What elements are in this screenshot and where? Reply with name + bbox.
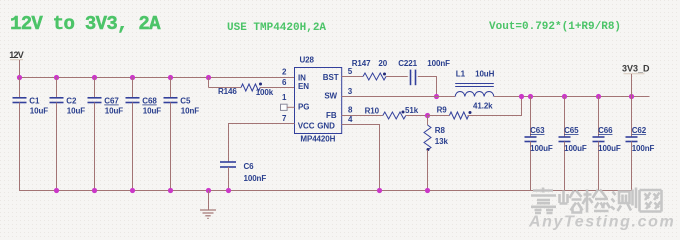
svg-text:2: 2: [282, 68, 287, 77]
node R9 riser junction: [519, 94, 524, 99]
svg-text:C68: C68: [142, 97, 157, 106]
node out rail 3V3_D junction: [629, 94, 634, 99]
capacitor C6: [220, 162, 266, 191]
wire BST pin to R147: [342, 76, 363, 78]
wire EN branch vertical: [208, 78, 210, 88]
svg-text:10uF: 10uF: [67, 106, 85, 115]
capacitor C65: [559, 97, 587, 191]
svg-text:BST: BST: [323, 73, 339, 82]
node C68 gnd junction: [130, 188, 135, 193]
wire top input rail: [20, 77, 295, 79]
node C5 top junction: [168, 75, 173, 80]
svg-text:41.2k: 41.2k: [473, 101, 493, 110]
ground symbol: [200, 191, 216, 219]
op-amp U28 MP4420H body: [295, 56, 342, 144]
svg-text:MP4420H: MP4420H: [300, 134, 335, 143]
svg-text:U28: U28: [300, 56, 315, 65]
wire FB node to R9: [428, 115, 450, 117]
node C2 top junction: [54, 75, 59, 80]
wire R146 to EN pin: [260, 87, 295, 89]
svg-text:C62: C62: [632, 126, 647, 135]
svg-text:4: 4: [348, 115, 353, 124]
net label 3V3_D: [622, 64, 650, 97]
capacitor C221: [398, 59, 450, 85]
resistor R9: [437, 101, 494, 119]
svg-text:100nF: 100nF: [427, 59, 450, 68]
wire R10 to FB node: [406, 115, 428, 117]
wire 12V stub: [19, 60, 21, 78]
svg-text:AnyTesting.com: AnyTesting.com: [528, 214, 675, 231]
svg-text:GND: GND: [317, 121, 335, 130]
svg-text:6: 6: [282, 78, 287, 87]
svg-text:C1: C1: [29, 97, 40, 106]
svg-text:12V: 12V: [9, 50, 23, 60]
node out rail C63 junction: [528, 94, 533, 99]
capacitor C1: [13, 78, 49, 191]
node C67 top junction: [92, 75, 97, 80]
capacitor C5: [164, 78, 200, 191]
svg-text:C221: C221: [398, 59, 417, 68]
svg-text:10nF: 10nF: [181, 106, 199, 115]
svg-text:100uF: 100uF: [564, 144, 587, 153]
svg-text:1: 1: [282, 93, 287, 102]
node C6 gnd junction: [226, 188, 231, 193]
capacitor C66: [593, 97, 621, 191]
svg-text:8: 8: [348, 105, 353, 114]
wire R147 to C221: [386, 76, 408, 78]
resistor R147: [352, 59, 388, 80]
svg-text:3: 3: [348, 87, 353, 96]
svg-text:100nF: 100nF: [244, 174, 267, 183]
wire VCC pin to C6: [229, 124, 295, 163]
wire FB pin to R10: [342, 115, 383, 117]
svg-text:L1: L1: [456, 70, 466, 79]
svg-text:C6: C6: [244, 162, 255, 171]
svg-text:C63: C63: [530, 126, 545, 135]
svg-text:10uH: 10uH: [475, 70, 494, 79]
svg-text:R8: R8: [435, 126, 446, 135]
svg-text:R9: R9: [437, 105, 448, 114]
svg-text:FB: FB: [326, 111, 337, 120]
svg-text:R147: R147: [352, 59, 371, 68]
svg-text:USE TMP4420H,2A: USE TMP4420H,2A: [227, 22, 326, 34]
resistor R146: [218, 83, 274, 97]
node C2 gnd junction: [54, 188, 59, 193]
wire C221 to SW node: [418, 77, 437, 97]
svg-text:C2: C2: [66, 97, 77, 106]
capacitor C63: [525, 97, 553, 191]
svg-text:100k: 100k: [256, 88, 274, 97]
svg-text:VCC: VCC: [298, 121, 315, 130]
net label 12V: [9, 50, 23, 60]
pin 1 PG no-connect square: [281, 104, 295, 110]
resistor R8: [424, 116, 448, 191]
ground rail: [19, 190, 632, 192]
svg-text:10uF: 10uF: [143, 106, 161, 115]
resistor R10: [365, 106, 419, 119]
svg-text:3V3_D: 3V3_D: [622, 64, 650, 74]
inductor L1: [455, 70, 494, 97]
watermark chinese characters: [531, 188, 662, 214]
node out rail C65 junction: [562, 94, 567, 99]
capacitor C68: [126, 78, 162, 191]
svg-text:51k: 51k: [405, 106, 419, 115]
svg-text:R146: R146: [218, 87, 237, 96]
svg-text:EN: EN: [298, 82, 309, 91]
node EN branch junction: [206, 75, 211, 80]
wire EN branch to R146: [209, 87, 242, 89]
svg-text:7: 7: [282, 114, 287, 123]
svg-text:R10: R10: [365, 107, 380, 116]
node ground stem junction: [206, 188, 211, 193]
wire GND pin to ground rail: [342, 125, 380, 191]
wire SW pin to L1: [342, 96, 456, 98]
svg-text:12V to 3V3, 2A: 12V to 3V3, 2A: [10, 13, 161, 35]
svg-text:10uF: 10uF: [30, 106, 48, 115]
node GND pin junction: [377, 188, 382, 193]
node C5 gnd junction: [168, 188, 173, 193]
svg-text:C66: C66: [598, 126, 613, 135]
capacitor C62: [626, 97, 655, 191]
node C68 top junction: [130, 75, 135, 80]
wire L1 to output rail: [494, 96, 650, 98]
svg-text:100nF: 100nF: [632, 144, 655, 153]
svg-text:C5: C5: [180, 97, 191, 106]
svg-text:10uF: 10uF: [105, 106, 123, 115]
node FB divider junction: [425, 113, 430, 118]
svg-text:SW: SW: [324, 92, 337, 101]
svg-text:5: 5: [348, 67, 353, 76]
svg-text:100uF: 100uF: [598, 144, 621, 153]
capacitor C2: [50, 78, 86, 191]
node out rail C66 junction: [596, 94, 601, 99]
node C67 gnd junction: [92, 188, 97, 193]
svg-text:C67: C67: [104, 97, 119, 106]
node BST cap to SW junction: [434, 94, 439, 99]
node 12V/C1 junction: [17, 75, 22, 80]
svg-text:Vout=0.792*(1+R9/R8): Vout=0.792*(1+R9/R8): [489, 21, 621, 33]
svg-text:20: 20: [378, 59, 387, 68]
svg-text:100uF: 100uF: [530, 144, 553, 153]
wire R9 to output riser: [468, 97, 522, 116]
svg-text:PG: PG: [298, 103, 309, 112]
capacitor C67: [88, 78, 124, 191]
svg-text:13k: 13k: [435, 137, 449, 146]
node R8 gnd junction: [425, 188, 430, 193]
svg-text:C65: C65: [564, 126, 579, 135]
